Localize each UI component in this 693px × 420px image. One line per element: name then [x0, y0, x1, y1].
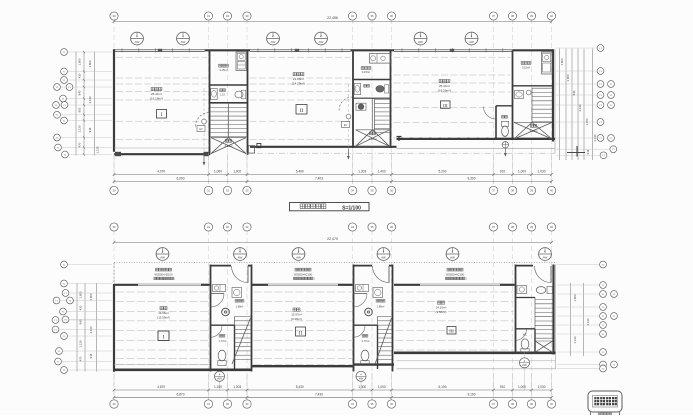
- svg-text:6,190: 6,190: [439, 385, 447, 389]
- stair triangle core 2 (2F): [356, 130, 373, 147]
- svg-text:(9.39m²): (9.39m²): [291, 317, 302, 321]
- svg-text:W2500×H2100: W2500×H2100: [446, 272, 465, 276]
- grid bubbles bottom row 2F: [110, 186, 118, 194]
- section marker below core 3 (2F): [502, 142, 508, 148]
- svg-text:): ): [466, 277, 467, 281]
- grid lines 1F: [113, 230, 115, 400]
- svg-text:1,300: 1,300: [358, 385, 366, 389]
- bottom dimensions 1F row 1: [114, 389, 552, 391]
- mullion blocks on 2F top wall: [158, 49, 162, 52]
- svg-text:I: I: [163, 335, 165, 341]
- svg-text:1,130: 1,130: [96, 146, 100, 153]
- svg-text:9,190: 9,190: [468, 392, 476, 396]
- stair core 2 (1F): [353, 265, 355, 372]
- svg-text:III: III: [443, 103, 448, 108]
- bottom wall 2F unit II segment: [250, 146, 397, 148]
- svg-text:910: 910: [500, 385, 506, 389]
- svg-text:1,800: 1,800: [79, 291, 83, 298]
- svg-text:AW: AW: [543, 255, 548, 259]
- window markers 2F: [131, 32, 144, 45]
- svg-text:1,030: 1,030: [538, 385, 546, 389]
- svg-text:1,860: 1,860: [566, 74, 570, 81]
- grid bubbles top row 2F: [110, 12, 118, 20]
- grid bubbles top row 1F: [110, 223, 118, 231]
- svg-text:9,300: 9,300: [468, 177, 476, 181]
- svg-text:AW: AW: [450, 255, 455, 259]
- unit III label (1F): [438, 301, 441, 304]
- svg-text:(14.29m²): (14.29m²): [292, 82, 305, 86]
- unit II label (2F): [293, 73, 296, 76]
- svg-text:AW: AW: [160, 255, 165, 259]
- floor lines unit II 2F: [250, 56, 351, 58]
- floor lines unit I 2F: [116, 56, 208, 58]
- svg-text:21.06m²: 21.06m²: [293, 77, 304, 81]
- svg-text:1,150: 1,150: [214, 385, 222, 389]
- svg-text:AW: AW: [296, 255, 301, 259]
- garage front walls with shutter openings 1F: [114, 284, 138, 286]
- svg-text:4,130: 4,130: [89, 326, 93, 333]
- left wall 2F: [113, 49, 115, 152]
- svg-text:6,093: 6,093: [177, 177, 185, 181]
- window markers 1F: [156, 248, 169, 261]
- svg-text:AW: AW: [319, 40, 324, 44]
- bottom dimensions 2F row 1: [114, 174, 552, 176]
- svg-text:940: 940: [78, 90, 82, 95]
- svg-text:1.98m²: 1.98m²: [377, 305, 385, 308]
- svg-text:918: 918: [88, 127, 92, 132]
- svg-text:3,140: 3,140: [593, 134, 597, 141]
- svg-text:EV: EV: [199, 128, 203, 131]
- entrance door core 3 (1F): [535, 266, 552, 283]
- svg-text:3.15m²: 3.15m²: [219, 68, 227, 72]
- stairs core 3 (2F): [526, 90, 531, 95]
- small fixtures unit II/III bottom (2F): [257, 144, 261, 148]
- entry arrow below core 2 (2F): [347, 148, 349, 156]
- svg-text:470: 470: [79, 356, 83, 361]
- svg-text:5,200: 5,200: [439, 169, 447, 173]
- svg-text:1,130: 1,130: [573, 336, 577, 343]
- left grid bubbles 2F: [61, 49, 68, 56]
- stamp box bottom right: [588, 391, 622, 412]
- svg-text:7,430: 7,430: [315, 392, 323, 396]
- stair core 3 (2F right): [512, 50, 514, 140]
- svg-text:1.77m²: 1.77m²: [219, 340, 227, 343]
- grid lines 2F: [113, 19, 115, 186]
- svg-text:1,130: 1,130: [79, 340, 83, 347]
- svg-text:4,130: 4,130: [578, 104, 582, 111]
- svg-text:1,800: 1,800: [88, 60, 92, 67]
- toilet room 2F right: [495, 106, 497, 140]
- unit I label (2F): [151, 88, 154, 91]
- bottom wall 1F right section: [394, 351, 556, 354]
- svg-text:4.30m²: 4.30m²: [224, 144, 232, 148]
- floor lines unit I 1F: [116, 291, 209, 293]
- stairs core 2 (2F): [371, 99, 373, 132]
- stair core 3 (1F right): [515, 265, 517, 353]
- svg-text:410: 410: [78, 73, 82, 78]
- svg-text:25.41m²: 25.41m²: [151, 92, 162, 96]
- svg-text:470: 470: [78, 142, 82, 147]
- svg-text:1,400: 1,400: [378, 169, 386, 173]
- svg-text:1,000: 1,000: [518, 169, 526, 173]
- svg-text:940: 940: [572, 90, 576, 95]
- svg-text:AW: AW: [359, 377, 364, 381]
- svg-text:4.30m²: 4.30m²: [368, 137, 376, 141]
- svg-text:918: 918: [89, 353, 93, 358]
- stair core 2 (2F): [352, 50, 354, 148]
- svg-text:III: III: [449, 329, 454, 334]
- svg-text:910: 910: [500, 169, 506, 173]
- svg-text:3.15m²: 3.15m²: [362, 70, 370, 74]
- bottom dimensions 2F row 2: [114, 181, 552, 183]
- svg-text:AW: AW: [238, 255, 243, 259]
- title box: 2F plan S=1/100: [290, 203, 370, 211]
- grid bubbles bottom row 1F: [110, 400, 118, 408]
- building outline 2F: top wall (window wall in bays, solid at cores): [114, 48, 205, 50]
- svg-text:1,800: 1,800: [560, 58, 564, 65]
- svg-text:AW: AW: [271, 40, 276, 44]
- svg-text:1,800: 1,800: [573, 294, 577, 301]
- svg-text:(16.19m²): (16.19m²): [150, 97, 163, 101]
- stair core 1 (1F): [210, 265, 212, 372]
- washbasin core 3 (2F): [515, 91, 524, 99]
- corner tick marks right dim column 2F: [567, 152, 585, 154]
- svg-text:AW: AW: [381, 255, 386, 259]
- right dimension column 1F: [570, 283, 572, 356]
- floor lines unit III 2F: [394, 56, 511, 58]
- svg-text:AW: AW: [217, 377, 222, 381]
- svg-text:863: 863: [78, 107, 82, 112]
- svg-text:W2500×H2100: W2500×H2100: [294, 272, 313, 276]
- svg-text:AW: AW: [181, 40, 186, 44]
- svg-text:(16.50m²): (16.50m²): [438, 89, 451, 93]
- left dimension column 1F: [76, 283, 78, 372]
- svg-text:): ): [314, 277, 315, 281]
- unit III label (2F): [439, 80, 442, 83]
- unit I entrance door (2F, dashed swing): [203, 88, 205, 152]
- svg-text:940: 940: [79, 319, 83, 324]
- svg-text:(9.58m²): (9.58m²): [436, 310, 447, 314]
- svg-text:(13.59m²): (13.59m²): [157, 315, 170, 319]
- eave dotted line 1F: [114, 262, 555, 264]
- svg-text:1,003: 1,003: [233, 385, 241, 389]
- svg-text:1,150: 1,150: [585, 118, 589, 125]
- svg-text:1,130: 1,130: [78, 125, 82, 132]
- svg-text:3.15m²: 3.15m²: [522, 66, 530, 70]
- washroom core 2 (2F): [353, 97, 391, 99]
- svg-text:22,470: 22,470: [327, 237, 338, 241]
- bottom wall 2F unit I segment: [114, 147, 209, 149]
- kitchenette core 2 (2F): [370, 54, 391, 64]
- svg-text:1,000: 1,000: [518, 385, 526, 389]
- svg-text:AW: AW: [469, 40, 474, 44]
- left dimension column 2F: [75, 52, 77, 156]
- svg-text:1,002: 1,002: [233, 169, 241, 173]
- svg-text:4,130: 4,130: [88, 96, 92, 103]
- fixtures core 3 (1F): [517, 286, 527, 294]
- svg-text:4,070: 4,070: [157, 169, 165, 173]
- floor lines unit III 1F: [396, 291, 514, 293]
- svg-text:AW: AW: [135, 40, 140, 44]
- svg-text:1.15: 1.15: [220, 93, 225, 96]
- overall dimension 1F: 22,470: [114, 242, 552, 244]
- washer core 2 (2F): [356, 103, 366, 110]
- stairs core 3 (1F): [534, 298, 536, 329]
- svg-text:I: I: [161, 112, 163, 118]
- svg-text:4.30m²: 4.30m²: [529, 129, 537, 133]
- svg-text:EV: EV: [344, 124, 348, 127]
- svg-text:1,800: 1,800: [89, 293, 93, 300]
- stair core 1 (2F): [209, 50, 211, 155]
- unit I label (1F): [160, 307, 163, 310]
- svg-text:1,800: 1,800: [78, 58, 82, 65]
- unit II entrance door (2F): [347, 84, 349, 149]
- floor lines unit II 1F: [254, 291, 353, 293]
- svg-text:5,460: 5,460: [296, 169, 304, 173]
- svg-text:22,456: 22,456: [327, 16, 338, 20]
- svg-text:3,130: 3,130: [586, 318, 590, 325]
- toilet room core 3 (1F): [516, 328, 536, 330]
- unit II label (1F): [293, 308, 296, 311]
- overall dimension 2F: 22,456: [114, 21, 552, 23]
- svg-text:S=1/100: S=1/100: [342, 206, 361, 212]
- stamp kanji (dense glyph blocks): [594, 397, 599, 405]
- left wall 1F: [113, 263, 115, 286]
- svg-text:6,870: 6,870: [177, 392, 185, 396]
- marker below core 3 (1F): [524, 353, 526, 390]
- svg-text:1,303: 1,303: [358, 169, 366, 173]
- svg-text:AW: AW: [418, 40, 423, 44]
- bottom wall 1F unit II segment: [252, 365, 354, 367]
- porch box at core 1 right (2F): [248, 146, 254, 153]
- marker below core 1 (1F): [219, 372, 221, 391]
- svg-text:918: 918: [586, 149, 590, 154]
- svg-text:1.98m²: 1.98m²: [236, 305, 244, 308]
- svg-text:4,870: 4,870: [157, 385, 165, 389]
- right wall 1F: [552, 265, 554, 355]
- bottom dimensions 1F row 2: [114, 396, 552, 398]
- storage label core 2 (2F): [361, 67, 364, 70]
- svg-text:W2500×H2100: W2500×H2100: [154, 272, 173, 276]
- bottom wall 2F right section (set back): [397, 138, 556, 140]
- svg-text:1.77m²: 1.77m²: [362, 340, 370, 343]
- right dimension column 2F: [559, 49, 561, 161]
- svg-text:): ): [174, 277, 175, 281]
- svg-text:II: II: [300, 108, 304, 114]
- bottom wall 1F unit I segment: [114, 364, 211, 366]
- right wall 2F: [552, 49, 554, 141]
- svg-text:1,060: 1,060: [214, 169, 222, 173]
- marker below core 2 (1F): [360, 372, 362, 391]
- svg-text:II: II: [299, 330, 303, 336]
- entry arrow below core 1 (2F): [203, 154, 205, 162]
- svg-text:AW: AW: [522, 363, 527, 367]
- svg-text:1,000: 1,000: [378, 385, 386, 389]
- svg-text:25.41m²: 25.41m²: [439, 84, 450, 88]
- svg-text:410: 410: [79, 305, 83, 310]
- svg-text:1,030: 1,030: [538, 169, 546, 173]
- toilet door arc 2F right: [484, 107, 497, 120]
- svg-text:5,430: 5,430: [296, 385, 304, 389]
- svg-text:7,403: 7,403: [315, 177, 323, 181]
